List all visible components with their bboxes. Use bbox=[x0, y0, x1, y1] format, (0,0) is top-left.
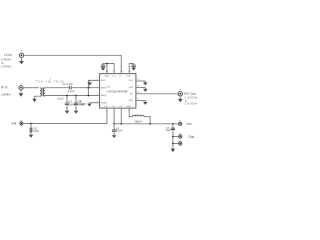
capacitor C2 bbox=[101, 65, 105, 67]
node bbox=[106, 63, 108, 65]
port J1 LO In bbox=[19, 50, 23, 57]
wire gnd stub 2 bbox=[173, 143, 179, 145]
ground bbox=[178, 96, 183, 102]
pin numbers outside bbox=[97, 71, 141, 112]
svg-text:LO In: LO In bbox=[4, 53, 12, 57]
node bbox=[149, 123, 151, 125]
port E1 EN bbox=[20, 120, 24, 125]
svg-text:RF Out: RF Out bbox=[184, 92, 196, 96]
svg-text:GND: GND bbox=[129, 80, 134, 82]
node bbox=[75, 95, 77, 97]
svg-text:GND: GND bbox=[105, 76, 110, 78]
ground bbox=[143, 101, 148, 105]
capacitor C3 shunt bbox=[65, 96, 77, 111]
ground bbox=[101, 68, 106, 71]
transformer T1 bbox=[35, 79, 63, 97]
svg-text:BBPI: BBPI bbox=[101, 80, 106, 82]
svg-text:Gnd: Gnd bbox=[188, 135, 194, 139]
wire pin 13 (left bottom) with ground bbox=[89, 102, 99, 104]
wire LO to pin3 top bbox=[24, 55, 122, 73]
node bbox=[30, 123, 32, 125]
wire top rail left bbox=[103, 64, 114, 74]
svg-text:GND: GND bbox=[129, 87, 134, 89]
label IF In bbox=[1, 86, 11, 97]
ground bbox=[29, 135, 34, 138]
svg-text:C1 0.1µF: C1 0.1µF bbox=[62, 82, 73, 86]
wire C1 to pin 1 (left) bbox=[71, 87, 99, 89]
wire EN to pin 5 bbox=[23, 108, 107, 123]
svg-text:TC4-1W-7ALN: TC4-1W-7ALN bbox=[35, 80, 63, 84]
capacitor C1 bbox=[62, 82, 75, 93]
node bbox=[66, 95, 68, 97]
svg-text:Vcc: Vcc bbox=[186, 122, 192, 126]
svg-text:1.90GHz: 1.90GHz bbox=[1, 58, 12, 62]
svg-text:LT5572EUF#TRPBF: LT5572EUF#TRPBF bbox=[106, 91, 128, 94]
resistor R2 bbox=[30, 124, 40, 135]
ground bbox=[143, 88, 148, 92]
ground bbox=[65, 111, 70, 114]
svg-text:LO: LO bbox=[119, 76, 122, 78]
ground bbox=[32, 99, 37, 102]
ground bbox=[112, 135, 117, 138]
svg-text:BBPQ: BBPQ bbox=[101, 95, 107, 97]
wire pin 9 bbox=[136, 100, 145, 102]
wire top rail right bbox=[129, 64, 133, 74]
wire pin 11 bbox=[136, 87, 145, 89]
port E2 Vcc bbox=[179, 121, 183, 126]
node bbox=[172, 143, 174, 145]
wire pin 12 bbox=[136, 80, 145, 82]
svg-text:0.1µF: 0.1µF bbox=[57, 97, 64, 101]
svg-text:100k: 100k bbox=[33, 129, 39, 133]
wire T1 sec top bbox=[45, 87, 70, 89]
svg-text:BBMI: BBMI bbox=[101, 88, 106, 90]
inductor L1 bbox=[129, 108, 150, 124]
wire T1 primary return bbox=[35, 96, 41, 99]
svg-text:0.1µF: 0.1µF bbox=[68, 89, 75, 93]
node A bbox=[88, 87, 90, 89]
wire RF out bbox=[136, 93, 178, 95]
capacitor C6 bbox=[112, 124, 123, 136]
node bbox=[172, 136, 174, 138]
svg-text:VCC: VCC bbox=[119, 106, 124, 108]
ground bbox=[171, 149, 176, 153]
wire pin 16 (left top) with ground bbox=[88, 80, 99, 95]
svg-text:GND: GND bbox=[126, 106, 131, 108]
svg-text:GND: GND bbox=[129, 100, 134, 102]
op-amp U1 IC body bbox=[100, 74, 136, 109]
port J3 RF Out bbox=[178, 89, 182, 96]
port E3 Gnd bbox=[179, 133, 183, 138]
svg-text:GND: GND bbox=[126, 76, 131, 78]
ground bbox=[143, 81, 148, 85]
svg-text:140MHz: 140MHz bbox=[1, 92, 11, 96]
ground bbox=[131, 68, 136, 71]
wire gnd stub 1 bbox=[173, 136, 179, 138]
node bbox=[113, 123, 115, 125]
port E4 Gnd bbox=[179, 140, 183, 145]
svg-text:100Ω: 100Ω bbox=[79, 102, 85, 106]
svg-text:0.1µF: 0.1µF bbox=[116, 129, 123, 133]
capacitor C5 bbox=[131, 65, 135, 67]
node B bbox=[88, 95, 90, 97]
ground bbox=[19, 57, 24, 64]
label RF Out bbox=[184, 92, 198, 106]
svg-text:VCC: VCC bbox=[112, 106, 117, 108]
svg-text:1µF: 1µF bbox=[166, 128, 171, 132]
wire bottom rail bbox=[114, 108, 179, 124]
svg-text:2.97GHz: 2.97GHz bbox=[1, 65, 12, 69]
capacitor C7 bbox=[166, 124, 175, 149]
svg-text:VCC: VCC bbox=[112, 76, 117, 78]
capacitor C4 shunt bbox=[74, 96, 86, 111]
port J2 IF In bbox=[19, 84, 23, 90]
node bbox=[172, 123, 174, 125]
pin labels inside bbox=[101, 76, 134, 108]
svg-text:2.97GHz: 2.97GHz bbox=[184, 102, 198, 106]
node bbox=[120, 123, 122, 125]
svg-text:U1: U1 bbox=[107, 85, 111, 89]
wire IF port to T1 bbox=[23, 87, 39, 89]
ground bbox=[74, 111, 79, 114]
wire T1 sec bottom to pin 2 bbox=[45, 95, 100, 97]
svg-text:680nH: 680nH bbox=[134, 119, 142, 123]
ground bbox=[87, 80, 92, 85]
svg-text:BBMQ: BBMQ bbox=[101, 102, 107, 104]
svg-text:IF In: IF In bbox=[1, 86, 8, 90]
svg-text:EN: EN bbox=[12, 122, 17, 126]
label LO In bbox=[1, 53, 12, 68]
ground bbox=[19, 90, 24, 97]
